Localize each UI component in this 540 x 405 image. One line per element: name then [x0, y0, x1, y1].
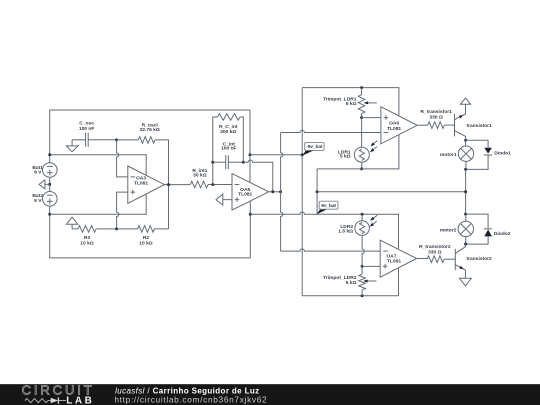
capacitor C_int: [221, 141, 237, 169]
node dot trimpot top: [360, 86, 363, 89]
node dot LDR2 top: [361, 213, 364, 216]
wire trimpot2 bottom stub: [361, 290, 363, 296]
node dot OA7 + tap: [361, 265, 364, 268]
diode Diodo1: [484, 148, 511, 157]
wire OA5 output: [269, 191, 281, 193]
wire trimpot top stub: [361, 88, 363, 95]
node dot motor1 top: [464, 139, 467, 142]
wire +9v branch to OA3 V-: [50, 194, 147, 215]
wire -9v branch to OA3 V+ (y=154.8, hop on vertical x=116.6 drawn sep): [50, 155, 147, 176]
wire between batteries: [49, 177, 51, 191]
wire C_int right lead: [228, 161, 243, 163]
wire +9v rail right (hops at 280.6 vert, 302.2 horiz-up): [250, 212, 398, 249]
wire feedback left vertical: [213, 117, 218, 185]
wire +9v to motors: [317, 191, 466, 193]
wire diode1 branch top: [466, 140, 489, 148]
node dot C_osc/R_oscl/OA3-: [115, 138, 118, 141]
wire trimpot bottom stub: [361, 114, 363, 118]
svg-text:LAB: LAB: [66, 396, 94, 405]
wire R_C_int right down: [240, 117, 243, 162]
wire trimpot2 top stub: [361, 266, 363, 274]
op-amp OA6: [381, 107, 417, 144]
svg-text:motor2: motor2: [440, 228, 457, 234]
node dot feedback right: [242, 161, 245, 164]
node flag up-arrow at R3 left: [66, 217, 77, 229]
svg-text:100 nF: 100 nF: [79, 126, 95, 132]
svg-text:5 kΩ: 5 kΩ: [346, 101, 357, 107]
svg-text:Diodo1: Diodo1: [494, 150, 511, 156]
wire to transistor1 base: [444, 124, 454, 126]
node dot +9v motor feed: [464, 190, 467, 193]
net flag -9v_bat: [302, 142, 324, 155]
svg-text:TL081: TL081: [134, 181, 148, 187]
wire Bat2 bottom + left box bottom +9v loop: [50, 206, 251, 258]
wire upper box bottom edge: [317, 135, 399, 169]
wire OA6 output: [417, 124, 428, 126]
motor motor1: [440, 146, 474, 161]
node dot at Bat1 top rail: [48, 153, 51, 156]
resistor R_transistor2: [419, 244, 451, 263]
LDR LDR1: [338, 141, 378, 163]
wire motor1 top stub: [465, 140, 467, 146]
op-amp OA5: [232, 174, 269, 211]
node dot trimpot2 bottom: [361, 294, 364, 297]
resistor R_int1: [190, 168, 208, 188]
wire to OA7 + input: [362, 265, 380, 267]
wire motor1 bottom stub: [465, 161, 467, 169]
wire LDR2 top stub: [361, 214, 363, 221]
svg-text:OA7: OA7: [386, 254, 396, 260]
svg-text:OA6: OA6: [389, 120, 399, 126]
svg-text:OA3: OA3: [136, 176, 146, 182]
svg-text:9 V: 9 V: [34, 170, 42, 176]
wire diode2 bottom: [466, 236, 489, 244]
svg-text:22.76 kΩ: 22.76 kΩ: [140, 127, 160, 133]
wire to transistor2 base: [444, 258, 455, 260]
node dot OA3 output: [167, 183, 170, 186]
transistor transistor2: [455, 244, 492, 278]
node dot feedback tap: [211, 183, 214, 186]
motor motor2: [440, 221, 474, 236]
diode Diodo2: [484, 229, 511, 237]
op-amp OA7: [380, 240, 416, 277]
wire -9v to flag (hop over x=280.6): [250, 154, 302, 156]
battery Bat1: [32, 163, 57, 178]
battery Bat2: [32, 192, 57, 207]
node dot Bat2 bottom branch: [48, 213, 51, 216]
svg-text:TL081: TL081: [387, 259, 401, 265]
svg-text:TL081: TL081: [238, 192, 252, 198]
wire R3 right to node: [96, 228, 117, 230]
svg-text:330 Ω: 330 Ω: [428, 249, 442, 255]
wire LDR2 bottom stub (hop over OA7- wire): [362, 235, 364, 266]
wire diode2 branch top: [466, 214, 489, 229]
node dot mid battery: [48, 183, 51, 186]
wire diode1 bottom: [466, 155, 489, 169]
svg-text:5 kΩ: 5 kΩ: [346, 280, 357, 286]
wire R_int1 to OA5 - input: [208, 184, 232, 186]
wire C_osc left: [72, 139, 86, 141]
wire feedback to OA5 output (hop over x=250.3): [243, 160, 272, 192]
wire right rail motor1-motor2: [465, 169, 467, 214]
svg-text:1.5 kΩ: 1.5 kΩ: [338, 228, 353, 234]
resistor R3: [72, 226, 96, 247]
logo resistor squiggle: [25, 399, 51, 403]
node dot OA6 + tap: [360, 116, 363, 119]
wire OA3 output: [164, 184, 190, 186]
ground flag left at battery midpoint: [39, 180, 50, 189]
wire OA5 V+ pin from -9v corner: [249, 110, 251, 183]
capacitor C_osc: [79, 121, 95, 147]
svg-text:30 kΩ: 30 kΩ: [193, 173, 207, 179]
svg-text:transistor2: transistor2: [467, 256, 493, 262]
wire motor2 top stub: [465, 214, 467, 221]
svg-text:10 kΩ: 10 kΩ: [139, 240, 153, 246]
svg-text:R2: R2: [143, 235, 150, 241]
node dot LDR1 bottom: [360, 167, 363, 170]
wire R_oscl right to output node: [155, 140, 169, 229]
node dot feedback join: [271, 190, 274, 193]
wire OA3 + input drop to R3/R2 node (vertical with hop): [117, 192, 128, 229]
svg-text:9 V: 9 V: [34, 198, 42, 204]
wire OA7 V+ pin from +9v edge done above; wire OA7 V- pin: [398, 268, 400, 296]
trimpot Trimpot_LDR1: [323, 95, 377, 114]
wire OA7 output: [417, 258, 428, 260]
svg-text:R_transistor2: R_transistor2: [419, 244, 451, 250]
svg-text:5 kΩ: 5 kΩ: [340, 153, 351, 159]
node flag up-arrow at transistor1 emitter: [460, 98, 470, 104]
svg-text:R_transistor1: R_transistor1: [420, 109, 452, 115]
trimpot Trimpot_LDR2: [323, 274, 376, 290]
wire OA5 output vertical rail x=280.6 (hops over y=154.8 and y=214.3): [281, 133, 283, 252]
wire to OA6 - input (hops at 302.2 up, 361.6 vert): [281, 130, 381, 132]
wire C_osc right to node: [88, 139, 116, 141]
wire node down to OA3 - input (vertical): [117, 140, 128, 177]
svg-text:100 nF: 100 nF: [221, 146, 237, 152]
wire R_oscl left lead: [117, 139, 139, 141]
node dot motor2 bottom: [464, 243, 467, 246]
wire +9v riser x=317.4: [316, 169, 318, 214]
node dot OA5 V- / +9v: [249, 213, 252, 216]
ground flag at OA5 + input: [216, 194, 232, 205]
wire -9v rail vertical x=302.2: [301, 88, 303, 296]
node dot cap left: [211, 161, 214, 164]
wire to OA6 + input: [362, 117, 381, 119]
resistor R2: [117, 226, 169, 247]
resistor R_C_int: [218, 114, 241, 135]
resistor R_transistor1: [420, 109, 452, 128]
svg-text:9v_bat: 9v_bat: [321, 203, 336, 209]
svg-text:-9v_bat: -9v_bat: [306, 144, 323, 150]
node dot motor1 bottom: [464, 168, 467, 171]
wire node down to LDR1: [361, 118, 363, 148]
svg-text:http://circuitlab.com/cnb36n7x: http://circuitlab.com/cnb36n7xjkv62: [114, 394, 267, 404]
node dot output rail join: [279, 190, 282, 193]
svg-text:330 Ω: 330 Ω: [429, 114, 443, 120]
svg-text:transistor1: transistor1: [467, 123, 493, 129]
node dot motor2 top: [464, 213, 467, 216]
wire C_int left lead: [213, 161, 226, 163]
wire lower box bottom edge: [302, 295, 398, 297]
wire upper box top edge: [302, 88, 399, 116]
node dot +9v riser/motor feed: [316, 190, 319, 193]
node dot -9v branch: [249, 153, 252, 156]
node flag down-arrow at transistor2 emitter: [459, 278, 471, 286]
node dot R3/R2/OA3+: [115, 227, 118, 230]
wire LDR1 bottom stub: [361, 162, 363, 169]
op-amp OA3: [128, 166, 165, 203]
svg-text:10 kΩ: 10 kΩ: [80, 240, 94, 246]
svg-text:300 kΩ: 300 kΩ: [220, 129, 236, 135]
ground flag at C_osc: [66, 140, 78, 152]
svg-text:Diodo2: Diodo2: [494, 231, 511, 237]
net flag 9v_bat: [317, 201, 339, 214]
svg-text:R3: R3: [84, 235, 91, 241]
wire top -9v rail: [50, 110, 250, 163]
transistor transistor1: [455, 104, 493, 140]
wire to OA7 - input (hop at 302.2 up): [281, 249, 381, 251]
footer bar: [0, 384, 540, 405]
LDR LDR2: [338, 215, 377, 235]
resistor R_oscl: [138, 123, 160, 144]
svg-text:TL081: TL081: [387, 126, 401, 132]
svg-text:C_osc: C_osc: [79, 121, 94, 127]
node dot -9v flag join: [301, 153, 304, 156]
svg-text:motor1: motor1: [440, 152, 457, 158]
logo diode: [51, 398, 59, 404]
wire motor2 bottom stub: [465, 237, 467, 245]
wire OA5 V- pin: [249, 201, 251, 214]
